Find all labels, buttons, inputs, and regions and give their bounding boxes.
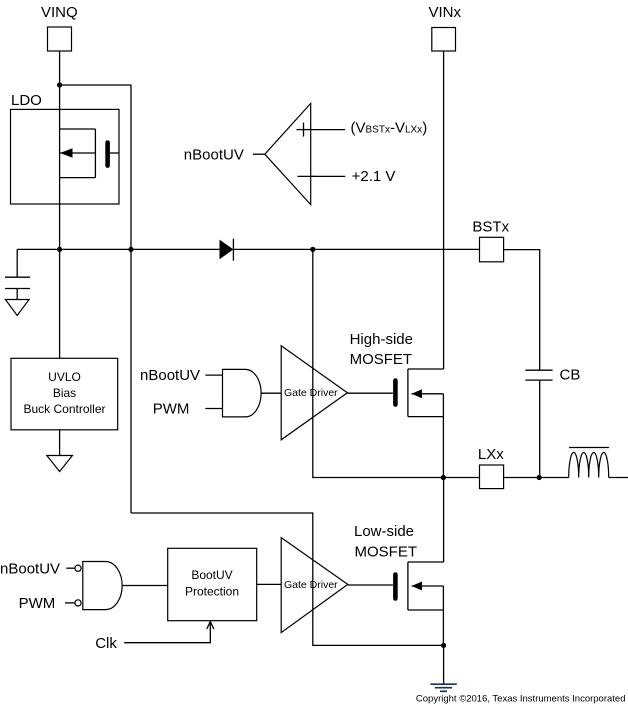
svg-text:BootUV: BootUV <box>191 568 232 582</box>
ground (C1) <box>5 300 29 316</box>
high-side MOSFET Q1 <box>395 369 443 478</box>
wire comparator - input <box>311 175 346 177</box>
ground (power, earth symbol) <box>430 684 456 691</box>
svg-text:LDO: LDO <box>11 92 42 109</box>
svg-text:PWM: PWM <box>153 401 190 418</box>
wire nBootUV to comparator <box>253 153 265 155</box>
diode D1 <box>220 239 234 261</box>
wire inductor out <box>609 477 628 479</box>
wire AND to driver <box>261 392 281 394</box>
wire PWM input <box>205 408 222 410</box>
bubble PWM <box>75 600 81 606</box>
UVLO Bias Buck Controller box <box>11 358 118 430</box>
node BST rail <box>310 247 315 252</box>
wire bootstrap rail y=249 <box>17 248 219 250</box>
svg-text:+2.1 V: +2.1 V <box>352 168 396 185</box>
inductor L <box>569 448 609 478</box>
LDO pass transistor <box>60 129 119 178</box>
LDO box <box>11 109 120 204</box>
node LDO out <box>57 247 62 252</box>
wire junction to x131 rail <box>60 85 131 513</box>
svg-text:VINx: VINx <box>429 4 462 21</box>
node A (VINQ junction) <box>57 82 62 87</box>
node LX (high-side source) <box>441 475 446 480</box>
svg-text:MOSFET: MOSFET <box>350 351 413 368</box>
capacitor C1 (LDO output) <box>5 249 30 299</box>
svg-text:nBootUV: nBootUV <box>140 367 200 384</box>
wire VINx down to high-side drain <box>443 51 445 369</box>
svg-text:UVLO: UVLO <box>48 370 81 384</box>
wire diode to BSTx <box>233 248 479 250</box>
wire BSTx to CB <box>504 250 540 371</box>
wire BootUV box to driver <box>257 583 282 585</box>
wire driver to gate <box>347 392 393 394</box>
wire driver to gate <box>348 584 393 586</box>
svg-text:Low-side: Low-side <box>354 523 414 540</box>
capacitor CB <box>525 370 552 477</box>
svg-text:Gate Driver: Gate Driver <box>284 579 338 591</box>
pin VINx <box>432 28 456 52</box>
BootUV Protection box <box>168 548 257 620</box>
pin VINQ <box>48 27 72 51</box>
svg-text:Buck Controller: Buck Controller <box>23 402 105 416</box>
gate driver (low-side) <box>281 538 348 633</box>
wire Clk to BootUV box <box>124 622 210 643</box>
wire BST-LX rail through driver <box>313 249 480 477</box>
wire nBootUV input <box>66 567 75 569</box>
AND gate (low-side) <box>83 562 122 610</box>
bubble nBootUV <box>75 565 81 571</box>
svg-text:LXx: LXx <box>478 446 504 463</box>
wire comparator + input <box>311 129 346 131</box>
svg-text:PWM: PWM <box>19 595 56 612</box>
node x131 rail <box>128 247 133 252</box>
wire LXx to inductor <box>504 477 569 479</box>
comparator U1 nBootUV <box>265 103 314 204</box>
gate driver (high-side) <box>281 346 347 440</box>
svg-text:BSTx: BSTx <box>472 219 509 236</box>
wire AND to BootUV box <box>122 585 168 587</box>
svg-text:Gate Driver: Gate Driver <box>284 387 338 399</box>
svg-text:nBootUV: nBootUV <box>184 146 244 163</box>
wire low-side supply rail <box>131 513 444 645</box>
wire to ground <box>443 645 445 684</box>
pin BSTx <box>480 237 504 261</box>
arrow Clk <box>207 622 214 630</box>
ground (UVLO) <box>47 456 73 472</box>
AND gate (high-side) <box>223 369 262 417</box>
wire nBootUV input <box>205 374 222 376</box>
svg-text:CB: CB <box>560 367 581 384</box>
wire VINQ down to UVLO <box>59 51 61 358</box>
node power ground <box>441 643 446 648</box>
svg-text:VINQ: VINQ <box>41 4 78 21</box>
wire UVLO to ground <box>59 430 61 456</box>
node CB bottom <box>537 475 542 480</box>
svg-text:Bias: Bias <box>53 386 76 400</box>
svg-text:nBootUV: nBootUV <box>0 561 60 578</box>
svg-text:High-side: High-side <box>350 331 413 348</box>
low-side MOSFET Q2 <box>395 478 443 646</box>
svg-text:Copyright ©2016, Texas Instrum: Copyright ©2016, Texas Instruments Incor… <box>416 694 626 705</box>
pin LXx <box>480 465 504 489</box>
svg-text:MOSFET: MOSFET <box>355 544 418 561</box>
svg-text:Protection: Protection <box>185 585 239 599</box>
wire PWM input <box>65 602 75 604</box>
svg-text:Clk: Clk <box>95 635 117 652</box>
